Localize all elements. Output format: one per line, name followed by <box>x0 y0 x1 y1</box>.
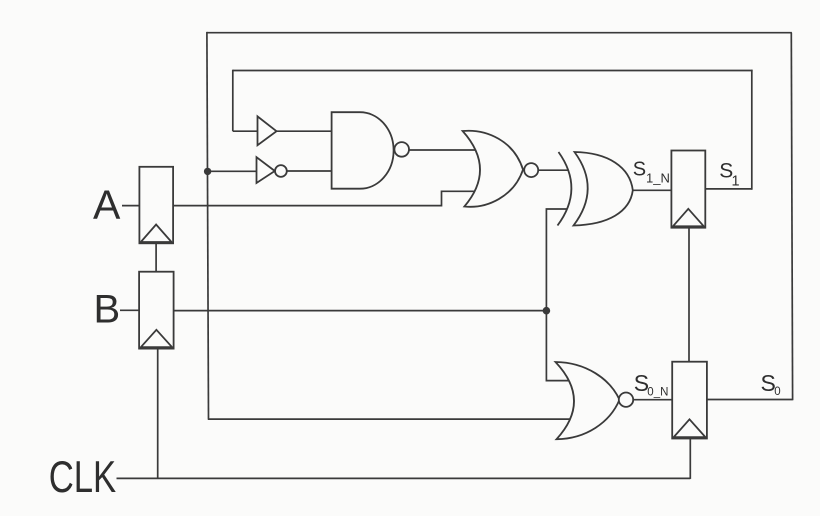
wire NOR U4 output to XOR U5 top input <box>538 169 567 171</box>
wire S0 feedback top horizontal <box>207 32 792 34</box>
flip-flop A register <box>139 167 173 244</box>
wire S1 feedback: output of S1 register <box>705 188 752 190</box>
wire S1 feedback to buffer U1 input <box>233 130 259 132</box>
svg-text:0_N: 0_N <box>647 386 668 398</box>
label net S1 <box>719 160 739 190</box>
label net S1_N <box>633 158 670 185</box>
NOR gate U6 <box>556 362 634 439</box>
svg-text:1_N: 1_N <box>646 170 670 185</box>
wire S0 feedback bottom to NOR U6 lower input <box>208 418 578 420</box>
wire S1 feedback left vertical <box>232 70 234 132</box>
wire B net up to XOR U5 lower input <box>546 209 567 311</box>
wire NAND U3 output to NOR U4 top input <box>409 149 478 151</box>
svg-text:CLK: CLK <box>49 453 117 502</box>
wire clock link A register to B register <box>155 243 157 272</box>
wire XOR U5 output S1_N to register <box>633 189 673 191</box>
wire A register output to NOR U4 lower input <box>173 191 478 205</box>
svg-text:S: S <box>633 158 646 180</box>
svg-text:B: B <box>94 287 121 331</box>
wire S1 feedback top horizontal <box>233 70 753 72</box>
wire NOR U6 output S0_N to register <box>633 399 673 401</box>
wire B register output <box>174 310 547 312</box>
NOR gate U4 <box>463 131 539 207</box>
wire S1 feedback right vertical <box>751 70 753 190</box>
node junction on S0 net <box>204 168 211 175</box>
NAND gate U3 <box>332 112 409 189</box>
flip-flop S1 register <box>671 151 705 228</box>
node junction on B net <box>543 307 551 315</box>
wire buffer U1 output to NAND U3 <box>276 130 333 132</box>
wire CLK horizontal <box>117 477 691 479</box>
wire tap to inverter U2 input <box>207 170 257 172</box>
XOR gate U5 <box>558 152 633 226</box>
wire input B to register <box>120 309 140 311</box>
wire CLK up to S0 register clock <box>689 439 691 479</box>
wire B net down to NOR U6 upper input <box>546 311 576 381</box>
wire clock link S1 register to S0 register <box>688 228 690 363</box>
svg-text:A: A <box>93 182 121 228</box>
inverter U2 <box>257 157 287 183</box>
wire S0 feedback: output of S0 register to right vertical <box>707 399 793 401</box>
flip-flop B register <box>139 272 174 349</box>
label net S0 <box>761 370 781 398</box>
wire S0 feedback left vertical <box>207 32 209 420</box>
flip-flop S0 register <box>672 362 707 439</box>
svg-text:1: 1 <box>732 174 740 190</box>
svg-text:0: 0 <box>774 386 780 398</box>
wire CLK up to B register clock <box>157 349 159 479</box>
wire inverter U2 output to NAND U3 <box>287 170 333 172</box>
wire input A to register <box>122 205 140 207</box>
buffer U1 <box>258 116 277 145</box>
wire S0 feedback right vertical <box>791 33 792 401</box>
label net S0_N <box>634 370 669 399</box>
